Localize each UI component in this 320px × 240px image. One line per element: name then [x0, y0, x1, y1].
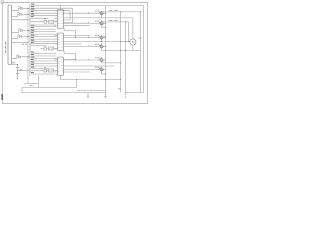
Q1 emitter bend — [101, 16, 103, 18]
transistor Q5 vertical — [101, 57, 103, 63]
wire net4 from connector bottom — [12, 64, 17, 66]
P2 right pin wires — [31, 26, 56, 28]
junction dots on left bus — [27, 8, 28, 9]
wire top rail — [31, 5, 144, 7]
resistor labels row1 — [109, 9, 112, 12]
transistor Q6 label — [95, 66, 97, 69]
wire row through R5 R6 — [31, 70, 58, 72]
resistor R3 label — [44, 44, 46, 47]
U4 internal pin dashes — [58, 59, 63, 72]
transistor Q3 circle — [100, 36, 103, 39]
transistor Q6 vertical — [101, 66, 103, 72]
connector J1 body — [8, 5, 12, 65]
capacitor C2 plate — [16, 72, 19, 74]
diode D5 label — [16, 54, 18, 57]
transistor Q1 label — [95, 10, 97, 13]
Q3 collector row — [102, 35, 106, 37]
bus V3 — [125, 22, 127, 93]
capacitor C1 plate — [16, 66, 19, 68]
base tick marks — [88, 45, 90, 46]
U2 left pin stubs — [55, 11, 58, 26]
wire net3 — [12, 57, 30, 59]
U4 right pins — [64, 59, 106, 61]
node mid chain — [17, 70, 18, 71]
Q4 emitter row — [102, 50, 141, 52]
bottom loop upper — [22, 88, 106, 93]
bus V6 right — [140, 12, 142, 93]
diode D3 — [20, 29, 22, 31]
resistor R1 — [44, 20, 47, 23]
wire row through resistors R1 R2 — [31, 21, 58, 23]
transistor Q1 circle — [100, 12, 103, 15]
Q2 emitter bend — [102, 26, 106, 27]
transistor Q6 arrow — [99, 68, 100, 70]
wire connector pin plain 1 — [12, 19, 28, 21]
P3 right pin wires — [31, 53, 56, 55]
capacitor chain wire — [17, 65, 19, 79]
diode D4 — [19, 35, 21, 37]
wire bus bottom stub — [24, 83, 38, 85]
transistor Q4 arrow — [99, 45, 100, 47]
wire row below R2 — [31, 24, 56, 26]
Q5 emitter row — [102, 62, 121, 64]
bus V7 right — [143, 6, 145, 93]
motor feed bottom — [132, 45, 134, 50]
net label mid-left — [22, 43, 24, 46]
transistor Q6 circle — [100, 68, 103, 71]
wire end tick — [80, 43, 82, 44]
sheet border frame — [2, 3, 147, 104]
stub V5 — [128, 22, 130, 42]
diode D1 label — [18, 5, 20, 8]
U2 internal pin dashes — [58, 11, 63, 26]
U3 left pin stubs — [55, 35, 58, 49]
motor M1 circle — [130, 39, 136, 45]
diode D5 — [18, 56, 20, 58]
connector J1 label text (vertical) — [5, 42, 6, 45]
transistor Q5 label — [95, 56, 97, 59]
driver block U2 body — [58, 10, 64, 29]
ground GND1 — [87, 93, 90, 97]
diode D3 label — [18, 27, 20, 30]
wire net2a — [12, 31, 30, 33]
P1 pin wire wrap 2 — [31, 11, 70, 20]
U3 right pins — [64, 35, 91, 37]
diode D1 — [20, 7, 22, 9]
transistor Q3 arrow — [99, 36, 100, 38]
net name text labels — [31, 4, 35, 73]
wire row y79.5 — [61, 79, 121, 81]
ground GND2 — [104, 93, 107, 96]
driver block U3 body — [58, 33, 64, 51]
Q2 collector row — [102, 21, 129, 23]
border revision tick — [1, 94, 3, 100]
wire wrap U4 bottom — [60, 76, 62, 80]
U2 right pins — [64, 12, 106, 14]
wire bus corner bottom — [77, 90, 106, 92]
main bus V1 — [105, 6, 107, 94]
chain end dot — [17, 78, 18, 79]
transistor Q2 label — [95, 20, 97, 23]
resistor R5 label — [44, 66, 46, 69]
wire wrap U2 bottom to U3 — [65, 29, 76, 38]
bottom loop label — [30, 85, 33, 86]
transistor Q1 arrow — [99, 12, 100, 14]
resistor labels row2 — [109, 19, 112, 22]
wire wrap U3 bottom to U4 — [64, 51, 76, 60]
bus V2 — [120, 12, 122, 93]
diode D4 label — [17, 33, 19, 36]
wire net1a — [12, 8, 30, 10]
bottom loop stub up — [76, 80, 78, 88]
bottom right label — [118, 88, 121, 89]
junction dots right — [105, 13, 106, 14]
resistor R5 — [44, 69, 47, 72]
transistor Q2 circle — [100, 22, 103, 25]
U3 internal pin dashes — [58, 35, 63, 48]
U1 bottom wire — [38, 76, 40, 88]
transistor Q3 vertical — [101, 35, 103, 42]
bus line left A — [27, 8, 29, 83]
transistor Q2 arrow — [99, 22, 100, 24]
net bus line B — [29, 4, 31, 76]
Q6 emitter bend — [102, 72, 106, 74]
transistor Q4 vertical — [101, 43, 103, 50]
resistor pack RP1 top marks — [44, 18, 46, 21]
wire net2b — [12, 37, 30, 39]
transistor Q5 circle — [100, 59, 103, 62]
transistor Q1 vertical — [101, 11, 103, 16]
wire row above R3 — [31, 45, 44, 47]
transistor Q2 vertical — [101, 21, 103, 27]
P1 right pin wires — [31, 12, 58, 14]
diode D2 — [19, 13, 21, 15]
border corner mark — [1, 1, 4, 3]
node at x17 — [17, 64, 18, 65]
diode D2 label — [17, 11, 19, 14]
resistor R4 — [49, 47, 54, 50]
driver block U4 body — [58, 57, 64, 76]
resistor R2 — [49, 20, 54, 23]
wire row through R3 R4 — [40, 48, 58, 50]
wire chain to bus — [18, 70, 31, 72]
wire net1b — [12, 14, 30, 16]
U4 left pin stubs — [55, 59, 58, 72]
net4 label — [12, 62, 16, 63]
resistor R6 — [49, 69, 54, 72]
Q1 collector row — [102, 11, 141, 13]
transistor Q4 label — [95, 43, 97, 46]
motor M1 label — [139, 38, 142, 39]
P1 pin wire wrap to U2 right — [31, 8, 73, 22]
chain label — [20, 69, 22, 70]
transistor Q3 label — [95, 34, 97, 37]
ground GND3 — [125, 93, 127, 96]
motor M1 center dot — [132, 41, 133, 42]
U2 top feed — [60, 6, 62, 10]
bottom right rail — [126, 92, 144, 94]
transistor Q4 circle — [100, 45, 103, 48]
transistor Q5 arrow — [99, 58, 100, 60]
wire connector pin plain 2 — [12, 41, 28, 43]
motor feed top — [132, 18, 134, 39]
resistor R3 — [44, 47, 47, 50]
